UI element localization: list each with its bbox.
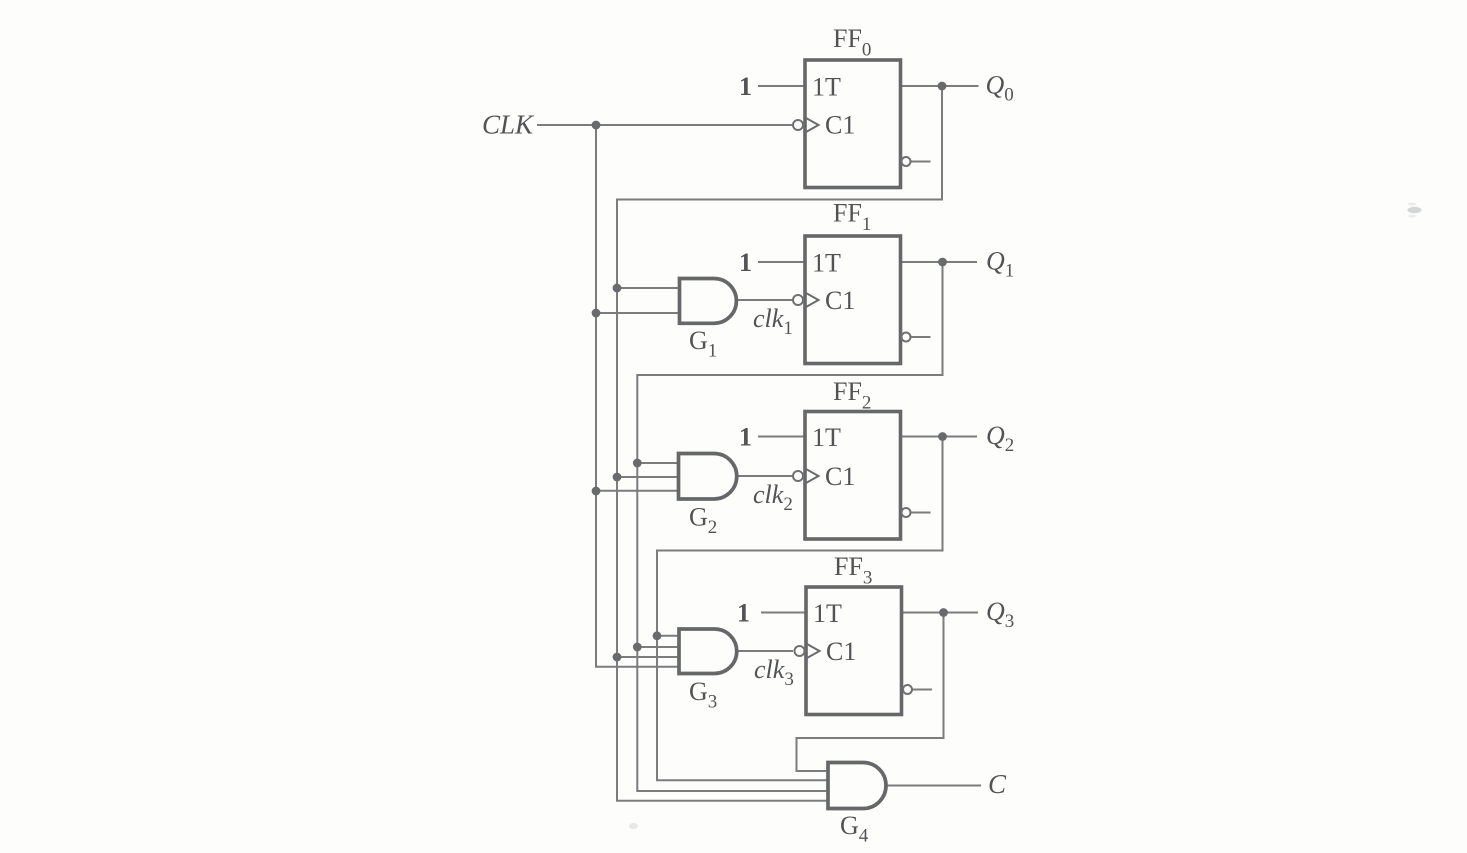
svg-text:C1: C1 (825, 286, 855, 315)
svg-text:FF0: FF0 (833, 24, 871, 61)
wire Q0 tap to G1 top input (617, 287, 680, 289)
svg-text:G2: G2 (689, 503, 717, 539)
svg-text:1T: 1T (813, 599, 842, 628)
wire G2 output clk2 (737, 475, 793, 477)
wire Q3 output (902, 612, 978, 614)
wire CLK tap to G2 bottom input (596, 490, 679, 492)
wire Q1 tap to G3 second input (637, 646, 679, 648)
wire Q3 feedback to G4 top input (797, 613, 944, 772)
edge triangle FF2 C1 (806, 469, 819, 483)
junction Q0 output (938, 82, 947, 91)
wire G1 output clk1 (736, 299, 793, 301)
clock bubble FF3 (795, 646, 805, 656)
svg-text:Q0: Q0 (986, 71, 1014, 106)
svg-text:Q1: Q1 (986, 247, 1014, 282)
svg-text:G1: G1 (689, 326, 717, 362)
wire 1 input FF0 (758, 85, 805, 87)
wire Q2 output (901, 436, 978, 438)
edge triangle FF3 C1 (807, 644, 820, 658)
svg-text:clk2: clk2 (753, 480, 793, 515)
junction CLK to G1 (592, 309, 601, 318)
wire Qbar stub FF0 (911, 161, 931, 163)
wire Qbar stub FF1 (911, 336, 931, 338)
junction Q2 to G3 (653, 631, 662, 640)
Qbar bubble FF1 (902, 333, 911, 342)
AND gate G3 (679, 629, 737, 674)
svg-text:1: 1 (739, 72, 752, 101)
wire Q1 output (901, 261, 978, 263)
svg-text:G3: G3 (689, 677, 717, 713)
scan speck bottom left (629, 823, 638, 829)
svg-text:G4: G4 (840, 811, 869, 847)
junction Q1 to G2 (633, 459, 642, 468)
svg-text:C1: C1 (826, 637, 856, 666)
junction CLK main (592, 121, 601, 130)
AND gate G4 (828, 763, 886, 809)
flip-flop FF0 box (805, 60, 901, 188)
wire CLK tap to G1 bottom input (596, 312, 680, 314)
edge triangle FF0 C1 (806, 118, 819, 132)
wire 1 input FF1 (758, 261, 805, 263)
AND gate G2 (679, 454, 737, 500)
svg-text:1T: 1T (812, 249, 841, 278)
wire Q0 tap to G3 third input (617, 656, 679, 658)
svg-text:clk1: clk1 (753, 304, 793, 339)
wire 1 input FF3 (761, 612, 806, 614)
junction Q1 output (938, 258, 947, 267)
junction Q2 output (938, 432, 947, 441)
junction CLK to G2 (592, 487, 601, 496)
wire Q0 feedback bus to G4 bottom input (617, 86, 942, 801)
flip-flop FF2 box (805, 412, 901, 540)
svg-text:1T: 1T (812, 423, 841, 452)
wire G4 output C (886, 785, 981, 787)
Qbar bubble FF0 (902, 157, 911, 166)
clock bubble FF1 (793, 295, 803, 305)
wire Q2 feedback bus to G4 second input (657, 437, 943, 781)
wire Qbar stub FF3 (912, 689, 932, 691)
svg-text:FF3: FF3 (834, 552, 872, 589)
scan speck right (1408, 203, 1422, 218)
Qbar bubble FF3 (903, 685, 912, 694)
wire Q0 output (901, 85, 979, 87)
wire CLK horizontal (537, 124, 793, 126)
wire Q1 feedback bus to G4 third input (637, 262, 942, 791)
svg-text:Q2: Q2 (986, 421, 1014, 456)
Qbar bubble FF2 (902, 508, 911, 517)
wire 1 input FF2 (758, 436, 805, 438)
AND gate G1 (680, 279, 737, 324)
svg-text:Q3: Q3 (986, 597, 1014, 632)
svg-text:C1: C1 (825, 111, 855, 140)
svg-text:clk3: clk3 (754, 655, 794, 690)
svg-text:FF1: FF1 (833, 199, 871, 236)
svg-text:C: C (988, 769, 1007, 799)
wire G3 output clk3 (737, 650, 793, 652)
svg-text:FF2: FF2 (833, 377, 871, 414)
wire Q0 tap to G2 middle input (617, 476, 679, 478)
wire Qbar stub FF2 (911, 512, 931, 514)
junction Q3 output (939, 608, 948, 617)
flip-flop FF1 box (805, 236, 901, 364)
junction Q1 to G3 (633, 643, 642, 652)
flip-flop FF3 box (806, 587, 902, 715)
svg-text:1: 1 (739, 248, 752, 277)
junction Q0 to G2 (613, 473, 622, 482)
svg-text:C1: C1 (825, 462, 855, 491)
svg-text:CLK: CLK (482, 110, 535, 140)
clock bubble FF2 (793, 471, 803, 481)
clock bubble FF0 (793, 120, 803, 130)
edge triangle FF1 C1 (806, 293, 819, 307)
svg-text:1T: 1T (812, 73, 841, 102)
wire Q1 tap to G2 top input (637, 462, 678, 464)
wire Q2 tap to G3 top input (657, 635, 679, 637)
wire CLK vertical bus into G3 bottom input (596, 125, 679, 667)
svg-text:1: 1 (739, 423, 752, 452)
svg-text:1: 1 (737, 599, 750, 628)
junction Q0 to G3 (613, 653, 622, 662)
junction Q0 to G1 (613, 284, 622, 293)
